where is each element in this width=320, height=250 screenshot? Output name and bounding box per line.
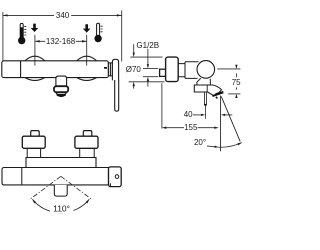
hot water thermometer icon	[18, 23, 26, 44]
dimension arrows for G1/2B nipple	[143, 49, 158, 87]
cold inlet bold down arrow	[83, 24, 91, 32]
dimension 40 (stream offset)	[184, 110, 233, 119]
wall flange escutcheon	[166, 57, 179, 82]
dimension 155 (spout reach)	[162, 83, 219, 132]
mixer body bar, front view	[2, 56, 109, 86]
temperature index mark on body	[104, 67, 107, 69]
falling water stream	[204, 92, 207, 119]
right inlet union assembly	[75, 131, 98, 158]
svg-text:Ø70: Ø70	[126, 65, 142, 74]
left inlet union assembly	[22, 131, 45, 158]
hot inlet bold down arrow	[31, 24, 39, 32]
spray angle 20 degrees	[194, 96, 242, 152]
lever handle, front view	[108, 59, 118, 111]
dimension 132-168 (inlet spacing)	[35, 35, 87, 61]
svg-text:110°: 110°	[53, 203, 70, 213]
dimension 75 (outlet height)	[217, 65, 241, 98]
dimension 340 (overall width, top)	[3, 10, 122, 61]
spout, side view	[194, 85, 223, 99]
right end cap with screw	[109, 167, 122, 187]
svg-text:155: 155	[184, 123, 198, 132]
cold water thermometer icon	[94, 23, 102, 42]
downward spout stub	[54, 185, 67, 196]
dimension Ø70 (flange diameter)	[126, 44, 165, 88]
svg-text:340: 340	[56, 11, 70, 20]
svg-text:132-168: 132-168	[46, 37, 76, 46]
swivel angle 110 degrees	[32, 199, 89, 213]
spout aerator, front view	[54, 86, 68, 96]
handle ball, side view	[197, 61, 215, 79]
inlet centerlines inside body	[35, 61, 87, 66]
mixer body, side view	[178, 62, 198, 79]
cartridge collar below ball	[197, 78, 210, 85]
thermostat body tube, front view	[2, 158, 109, 185]
svg-text:75: 75	[232, 78, 241, 87]
wall connection nipple	[160, 69, 166, 76]
svg-text:20°: 20°	[194, 138, 206, 147]
svg-text:40: 40	[184, 110, 193, 119]
swivel range dash-dot lines	[29, 176, 92, 200]
